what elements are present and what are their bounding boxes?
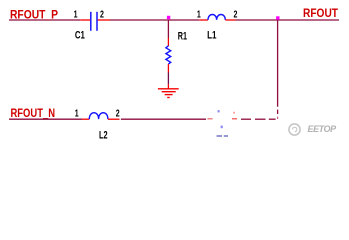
svg-text:RFOUT_P: RFOUT_P [10, 9, 58, 21]
faded remnant blue dash a [217, 135, 223, 137]
pin 1 stub of L2 [82, 118, 89, 120]
pin 2 stub of R1 [167, 64, 169, 72]
svg-text:2: 2 [116, 109, 120, 120]
svg-text:2: 2 [100, 10, 104, 21]
svg-text:C1: C1 [75, 30, 85, 42]
watermark logo circle [289, 124, 300, 135]
wire bottom rail left segment [9, 118, 82, 120]
inductor L1 humps [208, 15, 225, 20]
svg-text:R1: R1 [178, 31, 187, 43]
wire top rail left segment [9, 19, 80, 21]
wire bottom faded dash e [269, 118, 276, 120]
wire right vertical faded dash a [277, 110, 279, 114]
wire from junction down to R1 [167, 20, 169, 38]
capacitor C1 plates [91, 12, 97, 31]
ground symbol bars [158, 89, 179, 98]
svg-text:1: 1 [75, 109, 79, 120]
junction node at R1 [167, 16, 170, 19]
faded remnant blue dash b [224, 135, 228, 137]
pin 2 stub of L2 [108, 118, 120, 120]
svg-text:L1: L1 [207, 29, 216, 41]
svg-text:1: 1 [197, 10, 201, 21]
pin 2 stub of C1 [98, 19, 110, 21]
wire bottom faded dash c [241, 118, 251, 120]
watermark logo inner swirl [293, 127, 297, 131]
svg-text:EETOP: EETOP [308, 124, 338, 134]
resistor R1 zigzag [166, 46, 171, 64]
wire bottom faded dash a [207, 118, 212, 120]
wire right vertical faded dash b [277, 117, 279, 119]
svg-text:L2: L2 [99, 129, 108, 141]
junction node at right corner [276, 16, 279, 19]
svg-text:RFOUT: RFOUT [303, 8, 338, 20]
faded remnant blue dot b [221, 126, 223, 129]
wire R1 to ground [167, 73, 169, 85]
wire top rail right segment [236, 19, 340, 21]
faded remnant red dot [233, 112, 235, 114]
pin 1 stub of C1 [80, 19, 90, 21]
wire top rail middle segment [110, 19, 199, 21]
svg-text:2: 2 [233, 10, 237, 21]
wire bottom faded dash d [255, 118, 266, 120]
wire bottom faded dash b [232, 118, 237, 120]
faded remnant blue dot a [218, 110, 220, 112]
inductor L2 humps [89, 113, 108, 119]
wire right vertical drop [277, 20, 279, 107]
pin 1 stub of R1 [167, 38, 169, 46]
ground symbol stem [167, 84, 169, 88]
pin 2 stub of L1 [225, 19, 235, 21]
svg-text:RFOUT_N: RFOUT_N [11, 108, 56, 120]
pin 1 stub of L1 [199, 19, 208, 21]
wire bottom rail middle segment [121, 118, 206, 120]
svg-text:1: 1 [74, 10, 78, 21]
